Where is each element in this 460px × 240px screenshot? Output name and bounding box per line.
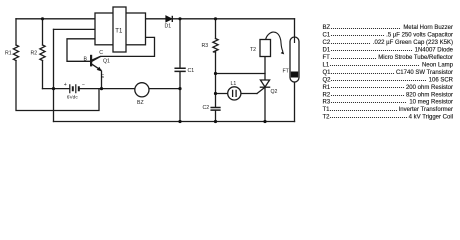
svg-text:6Vdc: 6Vdc xyxy=(67,95,79,101)
transformer T1 body xyxy=(95,7,146,52)
wire left border top segment xyxy=(15,19,17,45)
svg-text:FT: FT xyxy=(283,68,290,74)
svg-text:4 kV Trigger Coil: 4 kV Trigger Coil xyxy=(409,115,453,121)
svg-text:R2: R2 xyxy=(31,51,38,57)
buzzer BZ circle xyxy=(135,83,149,97)
wire R3/C2 node to T2 bottom and Q2 anode xyxy=(216,73,266,75)
svg-text:1N4007 Diode: 1N4007 Diode xyxy=(415,48,454,54)
svg-text:E: E xyxy=(101,74,105,80)
neon lamp L1 electrodes xyxy=(233,90,237,96)
junction Q2 cathode / bottom rail xyxy=(263,120,266,123)
svg-text:.022 µF Green Cap (223 K5K): .022 µF Green Cap (223 K5K) xyxy=(373,40,453,46)
svg-text:L1: L1 xyxy=(323,62,330,68)
wire vertical from T1 lead2 to bottom rail xyxy=(53,29,55,121)
svg-text:C: C xyxy=(99,50,103,56)
wire T1 lead3 to Q1 base xyxy=(67,39,95,62)
svg-text:D1: D1 xyxy=(323,48,331,54)
junction C1 / top rail xyxy=(178,17,181,20)
SCR Q2 cathode wire xyxy=(264,87,266,121)
wire R2 bottom lead xyxy=(42,61,44,89)
svg-text:C1: C1 xyxy=(323,33,331,39)
junction C1 / bottom rail xyxy=(178,120,181,123)
wire R3 top lead xyxy=(215,19,217,39)
svg-text:200 ohm Resistor: 200 ohm Resistor xyxy=(406,85,453,91)
svg-text:BZ: BZ xyxy=(323,25,331,31)
trigger coil T2 arc to flash tube xyxy=(266,32,283,51)
parts list xyxy=(323,25,454,120)
svg-text:Q2: Q2 xyxy=(323,77,332,83)
resistor R2 xyxy=(40,45,45,61)
svg-text:Q1: Q1 xyxy=(103,59,110,65)
svg-text:Micro Strobe Tube/Reflector: Micro Strobe Tube/Reflector xyxy=(378,55,453,61)
junction R3-C2 node to T2 wire xyxy=(214,72,217,75)
wire flash tube bottom to bottom rail xyxy=(294,82,296,122)
neon lamp L1 circle xyxy=(228,87,241,100)
flash tube FT body xyxy=(290,37,299,82)
svg-text:R1: R1 xyxy=(5,51,12,57)
wire T1 right lead to Q1 collector loop xyxy=(91,37,154,61)
trigger coil T2 body xyxy=(260,40,271,57)
svg-text:T1: T1 xyxy=(323,107,331,113)
svg-text:Metal Horn Buzzer: Metal Horn Buzzer xyxy=(403,25,453,31)
svg-text:C2: C2 xyxy=(203,105,210,111)
wire left border bottom and inner return xyxy=(16,61,99,111)
svg-text:820 ohm Resistor: 820 ohm Resistor xyxy=(406,92,453,98)
svg-text:.5 µF 250 volts Capacitor: .5 µF 250 volts Capacitor xyxy=(386,33,453,39)
junction Q1 emitter / battery rail xyxy=(100,87,103,90)
SCR Q2 triangle xyxy=(260,80,269,87)
svg-text:−: − xyxy=(82,82,85,88)
svg-text:FT: FT xyxy=(323,55,331,61)
wire R3 to C2 xyxy=(215,52,217,107)
junction C2 / bottom rail xyxy=(214,120,217,123)
svg-text:C1740 SW Transistor: C1740 SW Transistor xyxy=(396,70,453,76)
battery 6Vdc plates xyxy=(70,84,79,93)
svg-text:C2: C2 xyxy=(323,40,331,46)
svg-text:T1: T1 xyxy=(115,29,123,35)
SCR Q2 gate wire xyxy=(257,87,265,93)
svg-text:Q2: Q2 xyxy=(271,89,278,95)
capacitor C1 plates xyxy=(175,68,185,71)
svg-text:L1: L1 xyxy=(231,81,237,87)
svg-text:D1: D1 xyxy=(165,24,172,30)
wire bottom rail xyxy=(54,121,295,123)
wire C2 bottom lead xyxy=(215,110,217,121)
junction R2 / top rail xyxy=(41,17,44,20)
svg-text:T2: T2 xyxy=(323,115,331,121)
svg-text:BZ: BZ xyxy=(137,100,144,106)
svg-text:Q1: Q1 xyxy=(323,70,332,76)
svg-text:R1: R1 xyxy=(323,85,331,91)
wire T2 bottom to SCR anode xyxy=(264,57,266,81)
resistor R1 xyxy=(13,45,18,61)
resistor R3 xyxy=(213,39,218,53)
svg-text:R3: R3 xyxy=(323,100,331,106)
capacitor C1 vertical wires xyxy=(179,19,181,122)
svg-text:Neon Lamp: Neon Lamp xyxy=(422,62,454,68)
diode D1 xyxy=(166,16,173,22)
junction battery rail / down wire xyxy=(52,87,55,90)
component labels xyxy=(5,24,290,111)
svg-text:T2: T2 xyxy=(250,47,256,53)
transistor Q1 xyxy=(91,55,102,89)
svg-text:10 meg Resistor: 10 meg Resistor xyxy=(409,100,453,106)
wire T1 lead2 xyxy=(54,28,96,30)
svg-text:R2: R2 xyxy=(323,92,331,98)
junction R3 / top rail xyxy=(214,17,217,20)
svg-text:C1: C1 xyxy=(188,68,195,74)
arc arrowhead at flash tube trigger xyxy=(281,51,285,55)
svg-text:Inverter Transformer: Inverter Transformer xyxy=(399,107,453,113)
svg-text:B: B xyxy=(84,57,88,63)
junction dots xyxy=(41,17,267,123)
junction C1 / BZ rail xyxy=(178,87,181,90)
wire battery rail to BZ and C1 xyxy=(43,88,181,90)
wire R2 top lead xyxy=(42,19,44,45)
SCR Q2 cathode bar xyxy=(260,86,269,88)
junction C2 / L1 wire xyxy=(214,92,217,95)
svg-text:106 SCR: 106 SCR xyxy=(429,77,454,83)
svg-text:R3: R3 xyxy=(202,43,209,49)
svg-text:+: + xyxy=(64,82,67,88)
capacitor C2 plates xyxy=(211,108,220,111)
wire top rail xyxy=(16,18,295,20)
wire L1 branch xyxy=(216,93,258,95)
wire right border down to flash tube xyxy=(294,19,296,37)
